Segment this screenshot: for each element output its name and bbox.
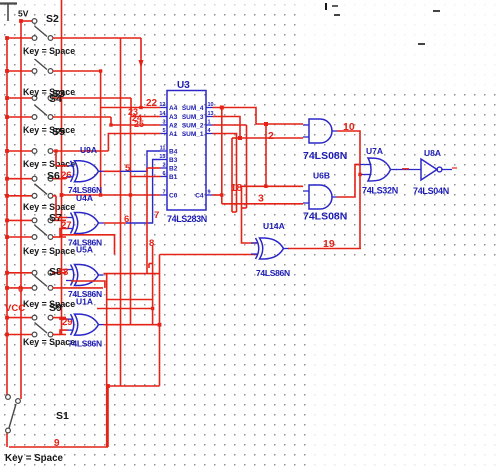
svg-text:3: 3 xyxy=(162,120,165,126)
svg-text:Key = Space: Key = Space xyxy=(23,125,75,135)
svg-text:5: 5 xyxy=(125,163,131,174)
svg-text:U3: U3 xyxy=(177,80,190,91)
svg-text:9: 9 xyxy=(208,190,211,196)
svg-text:14: 14 xyxy=(159,111,166,117)
svg-text:Key = Space: Key = Space xyxy=(23,202,75,212)
svg-text:19: 19 xyxy=(323,238,335,250)
svg-text:A1: A1 xyxy=(169,131,178,138)
svg-text:8: 8 xyxy=(149,238,154,249)
svg-text:B2: B2 xyxy=(169,166,178,173)
svg-text:12: 12 xyxy=(159,102,165,108)
svg-text:S5: S5 xyxy=(52,126,65,138)
svg-text:U6B: U6B xyxy=(313,171,330,181)
svg-text:B3: B3 xyxy=(169,157,178,164)
svg-text:3: 3 xyxy=(258,193,264,205)
svg-text:U7A: U7A xyxy=(366,146,383,156)
svg-text:10: 10 xyxy=(343,121,355,133)
svg-text:SUM_3: SUM_3 xyxy=(182,114,204,121)
svg-text:C0: C0 xyxy=(169,193,178,200)
svg-text:5V: 5V xyxy=(18,9,29,19)
svg-text:Key = Space: Key = Space xyxy=(5,453,64,464)
svg-text:2: 2 xyxy=(162,163,165,169)
svg-text:74LS86N: 74LS86N xyxy=(256,268,290,278)
svg-text:VCC: VCC xyxy=(5,303,25,314)
svg-text:SUM_4: SUM_4 xyxy=(182,105,204,112)
svg-text:S1: S1 xyxy=(56,410,69,422)
svg-text:U4A: U4A xyxy=(76,193,93,203)
svg-text:SUM_1: SUM_1 xyxy=(182,131,204,138)
svg-text:0: 0 xyxy=(18,284,23,295)
svg-text:Key = Space: Key = Space xyxy=(23,159,75,169)
svg-text:SUM_2: SUM_2 xyxy=(182,123,204,130)
svg-text:11: 11 xyxy=(160,146,166,152)
svg-text:A3: A3 xyxy=(169,114,178,121)
svg-text:74LS283N: 74LS283N xyxy=(167,214,207,224)
svg-text:C4: C4 xyxy=(195,193,204,200)
svg-text:74LS04N: 74LS04N xyxy=(413,186,449,196)
svg-text:U8A: U8A xyxy=(424,148,441,158)
svg-text:B1: B1 xyxy=(169,174,178,181)
svg-text:74LS32N: 74LS32N xyxy=(362,186,398,196)
svg-text:6: 6 xyxy=(162,171,165,177)
svg-text:B4: B4 xyxy=(169,149,178,156)
svg-text:U5A: U5A xyxy=(76,245,93,255)
svg-text:S6: S6 xyxy=(47,170,60,182)
svg-text:74LS08N: 74LS08N xyxy=(303,211,347,223)
svg-text:A4: A4 xyxy=(169,105,178,112)
svg-text:18: 18 xyxy=(231,182,243,194)
svg-text:25: 25 xyxy=(134,119,144,129)
svg-text:22: 22 xyxy=(146,98,158,109)
svg-text:1: 1 xyxy=(208,120,211,126)
svg-text:5: 5 xyxy=(162,128,165,134)
svg-text:74LS08N: 74LS08N xyxy=(303,150,347,162)
svg-text:S3: S3 xyxy=(52,88,65,100)
svg-text:U1A: U1A xyxy=(76,297,93,307)
svg-text:U9A: U9A xyxy=(80,145,97,155)
svg-text:Key = Space: Key = Space xyxy=(23,46,75,56)
svg-text:74LS86N: 74LS86N xyxy=(68,339,102,349)
svg-text:S9: S9 xyxy=(49,302,62,314)
svg-text:7: 7 xyxy=(162,190,165,196)
svg-text:15: 15 xyxy=(159,154,165,160)
svg-text:A2: A2 xyxy=(169,123,178,130)
svg-text:S2: S2 xyxy=(46,13,59,25)
svg-text:26: 26 xyxy=(61,170,72,181)
svg-text:2: 2 xyxy=(268,130,274,142)
svg-text:Key = Space: Key = Space xyxy=(23,246,75,256)
svg-text:7: 7 xyxy=(154,210,159,221)
svg-text:9: 9 xyxy=(54,438,60,449)
svg-text:27: 27 xyxy=(61,220,72,231)
svg-text:U14A: U14A xyxy=(263,221,285,231)
